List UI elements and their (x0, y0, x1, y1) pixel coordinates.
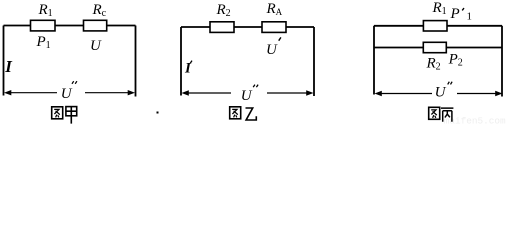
svg-text:R2: R2 (426, 55, 441, 72)
svg-text:U: U (241, 88, 253, 104)
svg-text:I: I (4, 57, 13, 76)
svg-text:P2: P2 (448, 52, 463, 69)
svg-text:R1: R1 (38, 2, 53, 19)
svg-text:R1: R1 (432, 0, 447, 17)
svg-text:U: U (90, 38, 102, 54)
svg-text:1: 1 (467, 11, 473, 23)
svg-text:P: P (450, 6, 460, 22)
svg-text:Rc: Rc (92, 2, 107, 19)
svg-text:U: U (266, 42, 278, 58)
svg-text:P1: P1 (36, 34, 51, 51)
svg-text:U: U (435, 85, 447, 101)
svg-text:U: U (61, 86, 73, 102)
svg-text:RA: RA (266, 1, 283, 17)
svg-text:R2: R2 (216, 2, 231, 19)
svg-text:maifen5.com: maifen5.com (444, 116, 506, 126)
